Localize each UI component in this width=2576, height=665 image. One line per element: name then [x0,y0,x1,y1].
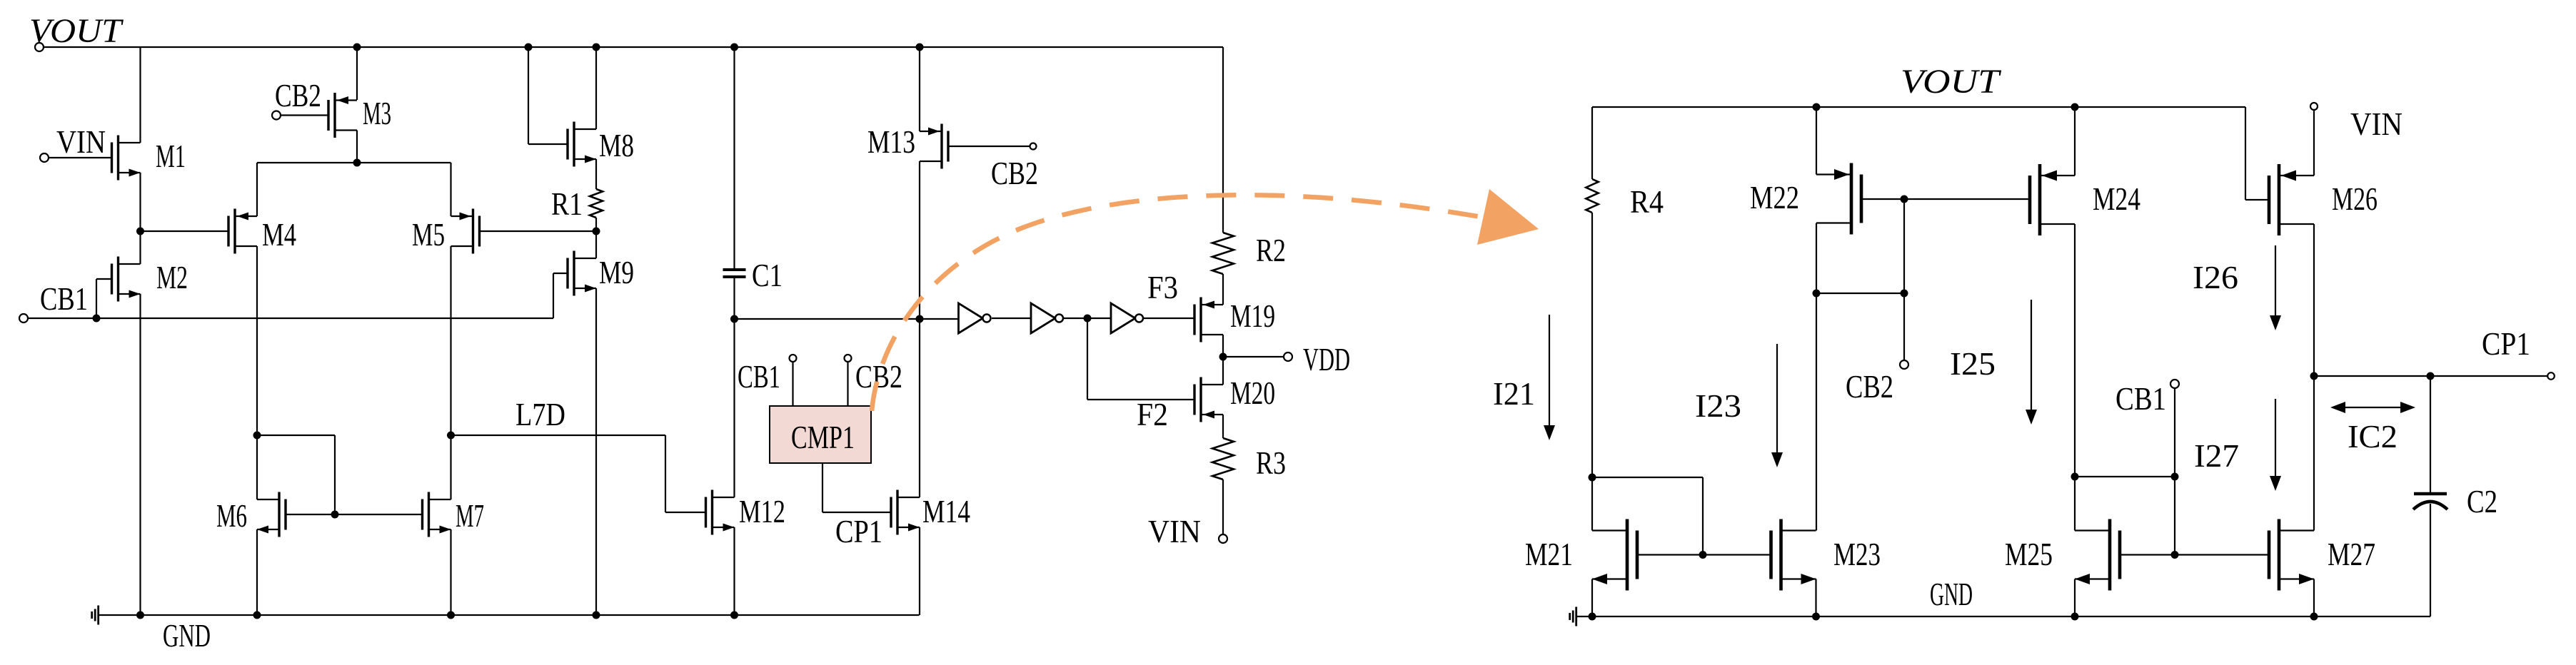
svg-text:F2: F2 [1137,396,1168,432]
label R3 [1256,445,1286,481]
svg-text:C1: C1 [752,257,783,293]
ground (right circuit) [1570,607,1576,626]
svg-text:M7: M7 [456,497,484,534]
wire M6 source to ground [256,529,258,615]
label VDD [1303,341,1350,377]
svg-text:IC2: IC2 [2348,418,2398,455]
svg-text:M14: M14 [922,493,970,529]
label R2 [1256,232,1286,268]
wire M3 source to M4/M5 node [353,131,361,167]
wire M22 source down [1813,223,1821,531]
current arrow I23 [1771,344,1783,467]
svg-text:I23: I23 [1695,387,1741,424]
wire rail corner to R4 [1591,107,1593,179]
label R1 [551,186,583,222]
wire VOUT rail corner down to R2 [1222,47,1224,233]
wire M22 gate line [1861,196,2030,203]
svg-text:M19: M19 [1230,298,1275,334]
svg-text:R4: R4 [1630,183,1664,220]
transistor M20 [1194,377,1223,422]
label M5 [412,216,445,253]
svg-text:GND: GND [1930,576,1973,612]
transistor M12 [706,490,735,535]
terminal VIN (left) [40,153,112,162]
wire R4 node to M21 gate loop [1592,477,1703,555]
transistor M19 [1194,298,1223,342]
transistor M22 [1816,163,1861,235]
transistor M27 [2269,519,2314,591]
wire M6-M7 gate row [286,511,423,519]
svg-text:M21: M21 [1525,536,1573,572]
svg-text:M25: M25 [2005,536,2053,572]
label CB1 (right) [2115,380,2166,417]
svg-text:L7D: L7D [515,396,565,432]
label VIN (right) [2350,106,2403,142]
label M25 [2005,536,2053,572]
wire M4 source down [256,246,258,435]
wire M20 source to R3 [1222,415,1224,438]
wire GND rail (left) [99,611,920,619]
label M1 [156,138,186,174]
label F3 [1147,269,1178,305]
transistor M9 [568,251,596,296]
svg-text:I27: I27 [2194,437,2239,474]
wire rail corner to M26 gate [2245,107,2269,200]
wire gate node down to CB2 [1901,199,1908,360]
svg-text:VIN: VIN [56,123,106,160]
terminal VDD [1223,352,1292,361]
label M27 [2328,536,2375,572]
current arrow I21 [1544,315,1555,440]
wire M5 source down [450,246,451,435]
wire M8 gate from VOUT rail [525,44,568,145]
label M12 [739,493,785,529]
terminal CB1 (CMP1 pin) [790,355,797,406]
wire inverter3 to M19 gate [1144,318,1194,319]
label I26 [2193,259,2238,295]
svg-text:M12: M12 [739,493,785,529]
svg-text:M5: M5 [412,216,445,253]
transistor M2 [112,257,141,302]
terminal VIN (bottom) [1219,479,1227,543]
terminal CB2 (CMP1 pin) [845,355,852,406]
wire C1 bottom to signal node [730,278,738,323]
wire M19 source to VDD node [1219,335,1227,385]
resistor R2 [1212,233,1234,274]
wire M8 drain from VOUT rail [593,44,600,130]
svg-text:CMP1: CMP1 [791,419,855,455]
label CP1 (right) [2482,325,2530,362]
transistor M26 [2269,164,2314,235]
label M26 [2332,181,2378,217]
transistor M5 [451,209,480,254]
label VIN (left) [56,123,106,160]
svg-text:M4: M4 [262,216,296,253]
terminal CB2 (right) [1900,360,1908,369]
resistor R4 [1586,179,1598,213]
label IC2 [2348,418,2398,455]
node M5-M7 at L7D [447,432,455,500]
wire M22 source-gate tie [1816,293,1904,294]
label R4 [1630,183,1664,220]
wire M3 drain from VOUT rail [353,44,361,101]
label GND (left) [163,617,211,654]
transistor M8 [568,122,596,167]
label M19 [1230,298,1275,334]
wire signal line to inverters [735,318,959,320]
terminal CP1 (right) [2547,372,2555,380]
resistor R1 [590,189,603,218]
wire M1 drain from VOUT rail [139,47,141,143]
wire M6 drain-gate loop [257,435,335,514]
node VOUT (left circuit top rail) [35,43,1223,51]
svg-text:C2: C2 [2467,483,2497,519]
wire C1 top from VOUT rail [730,44,738,269]
svg-text:VDD: VDD [1303,341,1350,377]
label M23 [1833,536,1881,572]
svg-text:M27: M27 [2328,536,2375,572]
inverter F1 [959,303,991,333]
wire M9 source to ground rail [595,288,597,615]
current arrow IC2 [2330,402,2415,413]
wire M25 node to CB1 column [2075,473,2179,481]
svg-text:R2: R2 [1256,232,1286,268]
label I25 [1950,345,1996,382]
svg-text:CP1: CP1 [835,513,882,549]
transistor M24 [2030,164,2075,235]
wire M23 source to ground [1815,579,1816,617]
label CB2 (right) [1846,368,1893,405]
label I21 [1493,375,1535,412]
node R1-M9-M5gate [593,218,600,258]
label M3 [363,95,391,131]
orange dashed arrow [872,189,1539,411]
svg-text:CB1: CB1 [40,280,88,317]
wire M2 gate jog [96,279,112,318]
svg-text:M22: M22 [1750,179,1799,215]
wire inverter2 to inverter3 [1064,315,1111,323]
terminal CB2 (M13 gate) [948,143,1037,150]
wire CMP1 output to M14 gate [822,463,891,512]
wire M21-M23 gate row [1637,551,1771,559]
label CB2 (CMP1) [855,358,902,395]
wire M2 source to ground rail [139,294,141,615]
label CB2 (M3 gate) [275,77,321,113]
label C1 [752,257,783,293]
svg-text:I21: I21 [1493,375,1535,412]
node M4-M6 at L7D level [253,432,261,440]
wire M8 source to R1 [595,159,597,189]
label I23 [1695,387,1741,424]
svg-text:M26: M26 [2332,181,2378,217]
label M20 [1230,375,1275,411]
svg-text:R1: R1 [551,186,583,222]
svg-text:VOUT: VOUT [1901,63,2002,101]
current arrow I27 [2270,399,2281,491]
inverter F3 stage [1111,303,1143,333]
svg-text:I26: I26 [2193,259,2238,295]
svg-text:CB2: CB2 [1846,368,1893,405]
wire M25-M27 gate row [2120,551,2269,559]
transistor M1 [112,136,141,181]
current arrow I26 [2270,245,2281,330]
node VOUT rail (right) [1592,103,2245,111]
label CB2 (M13 gate) [991,155,1038,191]
terminal VIN (right) [2310,103,2318,176]
wire M5 gate to R1 node [480,230,597,232]
svg-text:M20: M20 [1230,375,1275,411]
wire M24 source down to M25 [2071,224,2079,531]
label M21 [1525,536,1573,572]
svg-text:M3: M3 [363,95,391,131]
label F2 [1137,396,1168,432]
svg-text:F3: F3 [1147,269,1178,305]
label M14 [922,493,970,529]
transistor M23 [1771,519,1816,591]
svg-text:M8: M8 [599,127,634,163]
svg-text:CB2: CB2 [855,358,902,395]
wire M1 source to M2 drain [139,173,141,264]
wire R2 to M19 drain [1222,274,1224,305]
svg-text:CP1: CP1 [2482,325,2530,362]
capacitor C2 [2413,494,2447,616]
transistor M25 [2075,519,2120,591]
transistor M7 [423,492,451,537]
label M8 [599,127,634,163]
terminal CB1 (left) [19,314,28,323]
wire signal node down to M12 drain [733,319,735,497]
wire M14 source to ground rail corner [919,527,920,615]
svg-text:M9: M9 [599,254,634,290]
wire M21 source to ground [1591,579,1593,617]
wire R4 to M21 drain [1589,213,1596,531]
wire M25 source to ground [2074,579,2076,617]
label M7 [456,497,484,534]
wire CB1 to M9 gate [553,273,568,318]
terminal CB2 (M3 gate) [272,111,328,120]
svg-text:CB1: CB1 [2115,380,2166,417]
transistor M4 [228,209,257,254]
svg-text:CB2: CB2 [991,155,1038,191]
wire inverter1 to inverter2 [992,318,1031,319]
label M13 [867,123,915,160]
transistor M21 [1592,519,1637,591]
wire M7 source to ground [450,529,451,615]
svg-text:M2: M2 [156,259,188,295]
label CP1 (left) [835,513,882,549]
wire M13 source down to M14 drain [916,161,924,497]
wire M26 source down to M27 [2310,224,2318,531]
label M24 [2093,181,2140,217]
label L7D [515,396,565,432]
wire L7D to M12 gate [665,435,706,512]
transistor M6 [257,492,286,537]
label M4 [262,216,296,253]
comparator CMP1 [770,406,871,463]
wire M12 source to ground rail [733,527,735,615]
svg-text:VIN: VIN [1148,513,1201,549]
svg-text:CB2: CB2 [275,77,321,113]
svg-text:R3: R3 [1256,445,1286,481]
label CB1 (left) [40,280,88,317]
label VOUT (left) [29,12,124,50]
wire M4 source to M6 drain [256,435,258,499]
label I27 [2194,437,2239,474]
wire M24 drain from rail [2074,107,2076,176]
svg-text:CB1: CB1 [738,358,780,395]
label M22 [1750,179,1799,215]
terminal CB1 (right) [2170,380,2179,555]
label VOUT (right) [1901,63,2002,101]
svg-text:GND: GND [163,617,211,654]
inverter F2 stage [1031,303,1063,333]
label GND (right) [1930,576,1973,612]
wire M22 drain from rail [1816,107,1817,175]
label M2 [156,259,188,295]
svg-text:VOUT: VOUT [29,12,124,50]
svg-text:M6: M6 [216,497,247,534]
wire L7D line [451,435,666,436]
wire M4-M5 top line [257,163,451,216]
ground (left circuit) [92,606,99,625]
transistor M13 [920,124,948,169]
svg-text:M24: M24 [2093,181,2140,217]
label C2 [2467,483,2497,519]
label CMP1 [791,419,855,455]
current arrow I25 [2026,300,2037,425]
svg-text:VIN: VIN [2350,106,2403,142]
wire CB1 line [28,315,553,323]
label VIN (bottom) [1148,513,1201,549]
wire CP1 node down to C2 [2430,376,2431,492]
svg-text:M1: M1 [156,138,186,174]
wire M27 source to ground [2313,579,2315,617]
svg-text:M23: M23 [1833,536,1881,572]
capacitor C1 [723,270,746,277]
label M6 [216,497,247,534]
wire GND rail (right) [1577,613,2430,621]
label M9 [599,254,634,290]
label CB1 (CMP1) [738,358,780,395]
resistor R3 [1212,438,1234,479]
transistor M14 [891,490,920,535]
wire CP1 line [2314,372,2549,380]
svg-text:I25: I25 [1950,345,1996,382]
wire F2 node to M20 gate [1087,318,1194,400]
svg-text:M13: M13 [867,123,915,160]
node M1-M2 junction to M4 gate [136,228,228,235]
wire M13 drain from VOUT rail [916,44,924,132]
transistor M3 [328,93,357,138]
